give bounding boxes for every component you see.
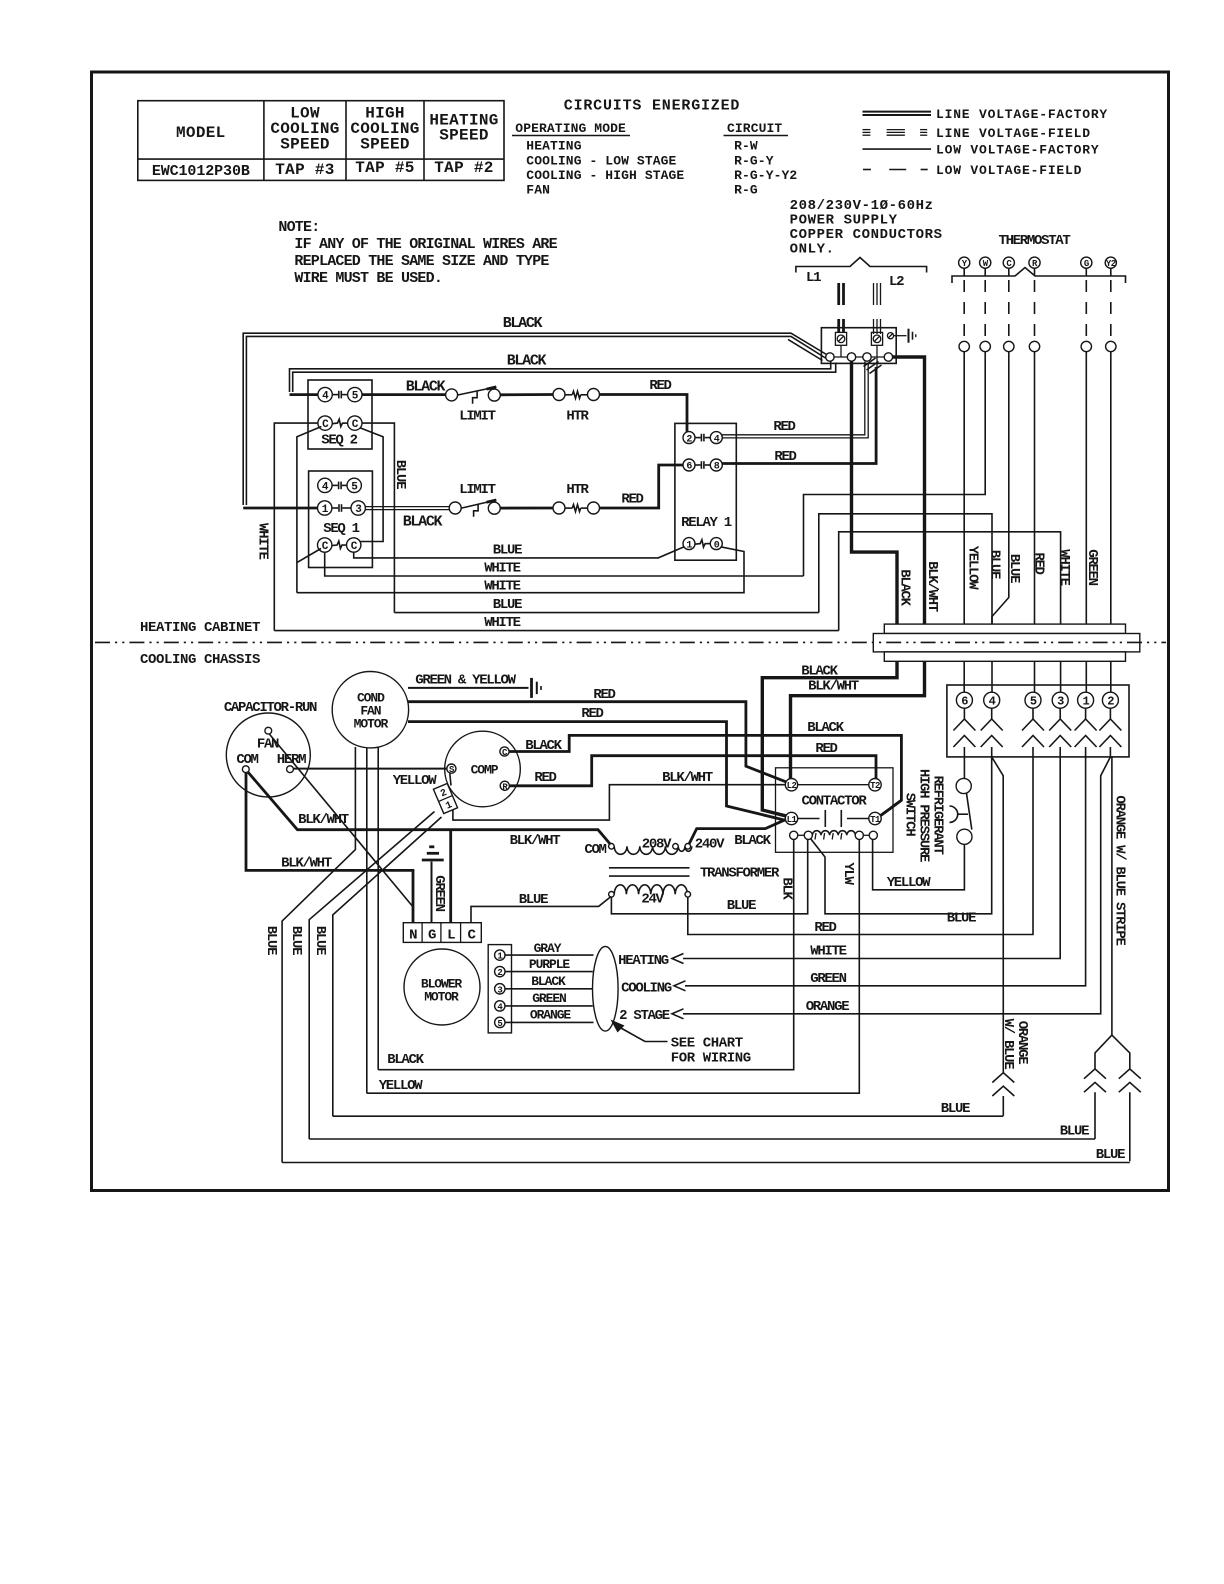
model table [138, 101, 504, 181]
chassis separator dash-dot line [95, 641, 1166, 643]
svg-text:2: 2 [686, 434, 692, 445]
wire black SEQ2-5 to LIMIT1 [362, 393, 446, 396]
wires through bulkhead below [964, 661, 1111, 692]
svg-text:BLUE: BLUE [1060, 1124, 1089, 1140]
svg-text:ONLY.: ONLY. [790, 241, 835, 257]
svg-text:YELLOW: YELLOW [965, 546, 981, 591]
svg-text:C: C [322, 541, 329, 553]
svg-text:2: 2 [1107, 695, 1114, 709]
wire blue 24V left to coil [611, 839, 807, 913]
svg-text:BLUE: BLUE [1006, 554, 1022, 583]
contactor terminal T1 [869, 812, 881, 825]
svg-text:EWC1012P30B: EWC1012P30B [152, 163, 250, 180]
wire orange w blue stripe pin2 to splits [1095, 757, 1112, 1069]
wire purple blower 2 [505, 971, 593, 973]
svg-text:BLUE: BLUE [263, 926, 279, 955]
svg-text:PURPLE: PURPLE [529, 957, 571, 972]
svg-text:LOW VOLTAGE-FIELD: LOW VOLTAGE-FIELD [936, 163, 1082, 178]
splice chevrons right branch [1119, 1069, 1141, 1161]
refrigerant high pressure switch [950, 757, 973, 845]
svg-text:SPEED: SPEED [360, 136, 410, 154]
wire red HTR1 to relay 2 [599, 395, 687, 433]
relay contact 6-8 [695, 461, 710, 469]
svg-text:BLACK: BLACK [406, 379, 446, 396]
wire seq2 C2 to blue2 riser [362, 423, 394, 612]
svg-text:BLACK: BLACK [387, 1052, 424, 1068]
svg-text:BLACK: BLACK [403, 514, 443, 531]
svg-text:TAP #5: TAP #5 [355, 159, 414, 177]
SEQ1 contact symbol lower [332, 504, 351, 512]
svg-text:THERMOSTAT: THERMOSTAT [998, 233, 1070, 249]
thermostat terminal Y2 [1105, 257, 1116, 269]
wire seq2 C2 diagonal to seq1 C2 [360, 428, 383, 542]
wire red R column to bulkhead [1034, 352, 1036, 624]
svg-text:C: C [352, 419, 359, 431]
svg-text:N: N [409, 928, 417, 944]
wire seq C1 drop to white2 [297, 427, 322, 593]
svg-text:4: 4 [322, 391, 329, 403]
svg-text:TAP #2: TAP #2 [434, 159, 493, 177]
svg-text:6: 6 [686, 462, 692, 473]
svg-text:BLACK: BLACK [807, 720, 844, 736]
wire blue3 to splice pin4 [333, 1115, 1004, 1117]
relay terminal 4 [710, 432, 722, 446]
svg-text:GREEN: GREEN [431, 875, 447, 911]
svg-text:WHITE: WHITE [810, 944, 846, 960]
legend line voltage factory [863, 107, 1109, 122]
blower terminal 3 [495, 984, 505, 996]
connector pin 4 [984, 692, 1000, 709]
svg-text:1: 1 [322, 504, 329, 516]
contactor coil terminals [790, 831, 878, 840]
svg-text:BLACK: BLACK [531, 974, 566, 989]
svg-text:SEQ 2: SEQ 2 [321, 433, 357, 449]
wire blkwht capacitor COM to transformer COM [248, 772, 611, 845]
wire white cabinet to bulkhead right [839, 532, 1061, 631]
capacitor-run component [226, 713, 310, 797]
wire black blower 3 [505, 988, 593, 990]
bulkhead connector plates [873, 624, 1140, 661]
border frame [92, 72, 1169, 1191]
wire orange w blue stripe right branch [1112, 1035, 1130, 1069]
svg-text:5: 5 [1030, 695, 1037, 709]
svg-text:5: 5 [497, 1019, 502, 1029]
svg-text:BLACK: BLACK [525, 738, 562, 754]
svg-text:2: 2 [497, 968, 502, 978]
svg-text:BLUE: BLUE [941, 1101, 970, 1117]
ground symbol cond fan [532, 678, 542, 698]
splice chevrons left branch [1084, 1069, 1106, 1139]
wire L terminal riser [449, 830, 452, 923]
limit switch LIMIT2 [449, 500, 500, 517]
svg-text:MOTOR: MOTOR [424, 990, 459, 1005]
relay terminal 1 [683, 538, 695, 552]
svg-text:BLUE: BLUE [392, 460, 408, 489]
wire blkwht thick block c4 down to bulkhead [893, 357, 925, 624]
svg-text:L1: L1 [806, 270, 821, 286]
wire blkwht plug pin1 to contactor L2 [453, 785, 786, 820]
thermostat terminal R [1029, 257, 1040, 269]
svg-text:OPERATING MODE: OPERATING MODE [515, 121, 626, 136]
harness oval connector [593, 947, 619, 1032]
svg-text:GREEN & YELLOW: GREEN & YELLOW [415, 673, 516, 689]
svg-text:BLUE: BLUE [493, 543, 522, 559]
svg-text:24V: 24V [641, 892, 664, 908]
svg-text:FAN: FAN [526, 182, 550, 197]
L2 field line-voltage dashes [874, 283, 881, 334]
wire red1 motor to contactor L2 [408, 702, 786, 782]
svg-text:YLW: YLW [840, 862, 856, 885]
svg-text:YELLOW: YELLOW [379, 1078, 424, 1094]
svg-text:COM: COM [584, 842, 606, 858]
legend low voltage field [863, 163, 1082, 178]
svg-text:HEATING: HEATING [618, 953, 669, 969]
blower terminal strip [488, 945, 511, 1033]
wire black thick block c2 down to bulkhead [852, 361, 898, 624]
thermostat terminal Y [959, 257, 970, 269]
svg-text:BLK: BLK [779, 877, 795, 900]
contactor main contacts [798, 810, 869, 827]
transformer secondary 24V [609, 885, 691, 897]
SEQ2 terminal 4 [318, 387, 332, 402]
wire white W column to cabinet [804, 352, 986, 576]
thermostat terminal G [1081, 257, 1092, 269]
svg-text:T1: T1 [870, 815, 881, 825]
svg-text:RED: RED [773, 419, 795, 435]
svg-text:WIRE MUST BE USED.: WIRE MUST BE USED. [294, 270, 442, 287]
svg-text:LINE VOLTAGE-FIELD: LINE VOLTAGE-FIELD [936, 126, 1091, 141]
wire red2 motor to contactor L1 [408, 722, 786, 821]
SEQ2 coil symbol [332, 419, 347, 426]
wire black LIMIT2 to HTR2 [500, 507, 553, 510]
wire black comp C to contactor T1 [509, 735, 901, 815]
wire green blower 4 [505, 1005, 593, 1007]
wire blue NGLC C to transformer [471, 897, 611, 923]
relay coil symbol [695, 540, 710, 547]
connector pin 1 [1078, 692, 1094, 709]
wire white pin3 to heating arrow [672, 757, 1060, 964]
svg-text:TRANSFORMER: TRANSFORMER [700, 866, 780, 882]
connector pin contacts chevrons [953, 708, 1121, 757]
svg-text:COOLING: COOLING [621, 981, 672, 997]
SEQ1 terminal 5 [347, 478, 361, 493]
svg-text:CONTACTOR: CONTACTOR [802, 794, 868, 810]
blower terminal 1 [495, 950, 505, 962]
wire green G column to bulkhead [1085, 352, 1087, 624]
plug cable wire A to blue2 [309, 812, 434, 1140]
svg-text:FOR WIRING: FOR WIRING [671, 1051, 751, 1067]
svg-text:RED: RED [581, 706, 603, 722]
svg-text:REPLACED THE SAME SIZE AND TYP: REPLACED THE SAME SIZE AND TYPE [294, 253, 549, 270]
wire black feed SEQ1-1 [243, 507, 317, 510]
svg-text:3: 3 [355, 504, 362, 516]
svg-text:RED: RED [814, 920, 836, 936]
splice chevrons pin4 wire [992, 1073, 1014, 1116]
svg-text:FAN: FAN [257, 737, 279, 753]
svg-text:CIRCUITS ENERGIZED: CIRCUITS ENERGIZED [564, 98, 740, 115]
wire red comp R to contactor T2 [509, 756, 876, 786]
SEQ1 terminal 4 [318, 478, 332, 493]
SEQ2 terminal C left [318, 416, 332, 431]
thermostat splice circles [959, 341, 1116, 351]
wire orange w blue pin4 branch [992, 757, 1004, 1073]
svg-text:L2: L2 [787, 781, 797, 791]
connector pin 2 [1102, 692, 1118, 709]
svg-text:COMP: COMP [471, 763, 499, 778]
SEQ2 contact symbol [332, 391, 347, 399]
relay contact 2-4 [695, 434, 710, 442]
svg-text:6: 6 [961, 695, 968, 709]
svg-text:T2: T2 [870, 781, 880, 791]
svg-text:8: 8 [714, 462, 720, 473]
heater HTR2 [553, 502, 600, 514]
terminal circles on block [826, 353, 893, 361]
svg-text:ORANGE: ORANGE [530, 1008, 572, 1023]
svg-text:BLK/WHT: BLK/WHT [662, 770, 713, 786]
svg-text:4: 4 [714, 434, 720, 445]
ground symbol green [422, 847, 444, 923]
legend low voltage factory [863, 143, 1100, 158]
svg-text:RED: RED [774, 449, 796, 465]
wire black double SEQ1-3 to LIMIT2 [365, 507, 449, 510]
svg-text:RED: RED [1031, 552, 1047, 574]
svg-text:YELLOW: YELLOW [887, 875, 932, 891]
power supply bracket L1 L2 [796, 258, 927, 273]
svg-text:LIMIT: LIMIT [459, 409, 495, 425]
svg-text:WHITE: WHITE [484, 615, 520, 631]
wire orange blower 5 [505, 1021, 594, 1023]
ground screw terminal [887, 333, 906, 339]
wire blue1 to right branch splice [282, 1162, 1130, 1164]
svg-text:BLACK: BLACK [507, 353, 547, 370]
SEQ2 terminal C right [348, 416, 362, 431]
wire blkwht capacitor COM to NGLC N [246, 773, 413, 923]
SEQ2 feed wire black [290, 393, 319, 396]
label ORANGE W/ BLUE [1000, 1019, 1030, 1070]
thermostat terminal C [1003, 257, 1014, 269]
svg-text:BLK/WHT: BLK/WHT [808, 679, 859, 695]
transformer core [609, 868, 690, 876]
svg-text:HEATING: HEATING [526, 139, 581, 154]
blower terminal 2 [495, 966, 505, 978]
transformer primary [609, 844, 692, 855]
svg-text:R-G-Y-Y2: R-G-Y-Y2 [734, 168, 797, 183]
wire Y2 column to bulkhead [1110, 352, 1112, 624]
svg-text:WHITE: WHITE [255, 523, 271, 559]
contactor terminal T2 [869, 779, 881, 792]
svg-text:R-G: R-G [734, 182, 758, 197]
NGLC terminal strip [403, 923, 481, 944]
svg-text:L: L [447, 928, 455, 944]
see chart leader arrow [611, 1020, 668, 1042]
svg-text:C: C [322, 419, 329, 431]
svg-text:WHITE: WHITE [1056, 549, 1072, 585]
wire white vertical cabinet left [274, 423, 318, 630]
svg-text:BLUE: BLUE [493, 597, 522, 613]
wire green yellow motor to ground [408, 687, 529, 689]
wire red double relay4 to block c3 [722, 362, 868, 438]
svg-text:1: 1 [686, 540, 692, 551]
relay RELAY 1 box [675, 423, 736, 560]
svg-text:2 STAGE: 2 STAGE [619, 1008, 670, 1024]
plug cable wire B to blue3 [333, 817, 442, 1116]
power terminal block [821, 328, 896, 369]
svg-text:CAPACITOR-RUN: CAPACITOR-RUN [224, 700, 317, 716]
label SEE CHART FOR WIRING [671, 1036, 751, 1067]
wire black below bulkhead to contactor L1 [762, 661, 897, 816]
svg-text:WHITE: WHITE [484, 579, 520, 595]
svg-text:HTR: HTR [566, 409, 589, 425]
wire BLACK line2 double to terminal block [290, 361, 836, 392]
label REFRIGERANT HIGH PRESSURE SWITCH [902, 769, 946, 862]
svg-text:COM: COM [236, 752, 258, 768]
svg-text:GREEN: GREEN [810, 971, 846, 987]
svg-text:BLUE: BLUE [947, 911, 976, 927]
wire T1 to switch riser [881, 800, 901, 815]
cond fan motor lead black [377, 747, 379, 1070]
svg-text:L2: L2 [889, 274, 904, 290]
svg-text:5: 5 [352, 391, 359, 403]
svg-text:LINE VOLTAGE-FACTORY: LINE VOLTAGE-FACTORY [936, 107, 1108, 122]
svg-text:BLK/WHT: BLK/WHT [281, 856, 332, 872]
svg-text:BLACK: BLACK [503, 315, 543, 332]
wire blue C column jog to bulkhead [992, 352, 1009, 624]
svg-text:BLUE: BLUE [519, 892, 548, 908]
svg-text:MODEL: MODEL [176, 124, 226, 142]
connector pin 3 [1052, 692, 1068, 709]
wire orange pin2 to 2stage arrow [672, 757, 1110, 1019]
svg-text:HEATING CABINET: HEATING CABINET [140, 620, 260, 636]
wire red relay8 to block c3 [722, 367, 876, 464]
svg-text:GREEN: GREEN [532, 991, 566, 1006]
svg-text:BLACK: BLACK [801, 664, 838, 680]
svg-text:ORANGE W/ BLUE STRIPE: ORANGE W/ BLUE STRIPE [1112, 795, 1128, 945]
cond fan motor lead 1 to blue1 [282, 747, 355, 1163]
svg-text:WHITE: WHITE [484, 561, 520, 577]
SEQ1 terminal C right [347, 538, 361, 553]
wire blue from cabinet to bulkhead [819, 514, 992, 624]
svg-text:Y2: Y2 [1106, 259, 1116, 269]
SEQ1 terminal 3 [351, 501, 365, 516]
heater HTR1 [553, 389, 600, 401]
svg-text:NOTE:: NOTE: [278, 219, 319, 236]
wire yellow Y column to bulkhead [963, 352, 965, 624]
wire fan terminal diagonal [270, 734, 413, 906]
legend line voltage field [863, 126, 1091, 141]
svg-text:GREEN: GREEN [1084, 549, 1100, 585]
svg-text:COOLING CHASSIS: COOLING CHASSIS [140, 652, 260, 668]
relay terminal 2 [683, 432, 695, 446]
svg-text:BLACK: BLACK [897, 569, 913, 606]
connector pin 5 [1025, 692, 1041, 709]
svg-text:SEE CHART: SEE CHART [671, 1036, 743, 1052]
svg-text:SPEED: SPEED [439, 127, 489, 145]
sequencer SEQ1 box [309, 471, 373, 568]
svg-text:BLK/WHT: BLK/WHT [924, 561, 940, 612]
wire blue coil to pin4 [811, 757, 992, 914]
svg-text:208V: 208V [642, 837, 672, 853]
sequencer SEQ2 box [308, 380, 372, 449]
svg-text:BLUE: BLUE [312, 926, 328, 955]
svg-text:3: 3 [497, 985, 502, 995]
wire yellow switch to contactor coil [873, 840, 965, 890]
wire yellow fan lead to coil YLW [367, 839, 860, 1093]
svg-text:4: 4 [989, 695, 996, 709]
limit switch LIMIT1 [446, 387, 501, 404]
svg-text:4: 4 [322, 481, 329, 493]
svg-text:RELAY 1: RELAY 1 [681, 515, 732, 531]
svg-text:RED: RED [534, 770, 556, 786]
svg-text:1: 1 [1082, 695, 1089, 709]
svg-text:COOLING - HIGH STAGE: COOLING - HIGH STAGE [526, 168, 684, 183]
svg-text:GRAY: GRAY [534, 941, 562, 956]
svg-text:BLUE: BLUE [1096, 1147, 1125, 1163]
svg-text:BLACK: BLACK [734, 833, 771, 849]
svg-text:G: G [428, 928, 436, 944]
svg-text:BLUE: BLUE [727, 898, 756, 914]
svg-text:LOW VOLTAGE-FACTORY: LOW VOLTAGE-FACTORY [936, 143, 1099, 158]
wire red 24V right to pin5 [688, 757, 1033, 935]
svg-text:YELLOW: YELLOW [393, 773, 438, 789]
blower terminal 5 [495, 1017, 505, 1029]
blower motor [404, 949, 480, 1025]
svg-text:R-W: R-W [734, 139, 758, 154]
wire red HTR2 to relay 6 [599, 465, 683, 508]
contactor box [776, 768, 894, 853]
contactor terminal L2 [785, 779, 797, 792]
svg-text:IF ANY OF THE ORIGINAL WIRES A: IF ANY OF THE ORIGINAL WIRES ARE [294, 236, 557, 253]
svg-text:C: C [351, 541, 358, 553]
svg-text:COOLING - LOW STAGE: COOLING - LOW STAGE [526, 153, 676, 168]
svg-text:3: 3 [1057, 695, 1064, 709]
relay terminal 8 [710, 459, 722, 473]
svg-text:L1: L1 [787, 815, 798, 825]
svg-text:RED: RED [649, 378, 671, 394]
svg-text:TAP #3: TAP #3 [275, 161, 334, 179]
svg-text:BLUE: BLUE [987, 550, 1003, 579]
blower terminal 4 [495, 1001, 505, 1013]
svg-text:SWITCH: SWITCH [902, 793, 918, 837]
wire BLACK line1 double to terminal block [243, 333, 826, 505]
thermostat terminal W [980, 257, 991, 269]
SEQ1 coil symbol [332, 541, 347, 548]
plug 2 1 [433, 774, 458, 815]
SEQ1 terminal 1 [318, 501, 332, 516]
svg-text:RED: RED [815, 741, 837, 757]
contactor wire L2 T2 [798, 784, 869, 786]
svg-text:CIRCUIT: CIRCUIT [727, 121, 782, 136]
svg-text:W/ BLUE: W/ BLUE [1000, 1019, 1016, 1070]
svg-text:ORANGE: ORANGE [806, 999, 850, 1015]
wire white2 to relay 0 [297, 547, 744, 593]
SEQ2 terminal 5 [348, 387, 362, 402]
wire black 240V to contactor L1 [689, 819, 786, 843]
L1 field line-voltage dashes [839, 283, 844, 333]
connector block 6 pin box [947, 685, 1129, 757]
wire gray blower 1 [505, 954, 594, 956]
wire black LIMIT1 to HTR1 [500, 393, 553, 396]
SEQ1 contact symbol upper [332, 482, 347, 490]
wire capacitor HERM to comp S [294, 768, 447, 770]
note text [278, 219, 557, 287]
compressor COMP [445, 731, 521, 807]
svg-text:240V: 240V [695, 837, 725, 853]
contactor terminal L1 [785, 812, 797, 825]
power supply label 208/230V [790, 198, 943, 257]
svg-text:RED: RED [621, 492, 643, 508]
thermostat bracket [952, 268, 1126, 284]
svg-text:SEQ 1: SEQ 1 [323, 521, 359, 537]
